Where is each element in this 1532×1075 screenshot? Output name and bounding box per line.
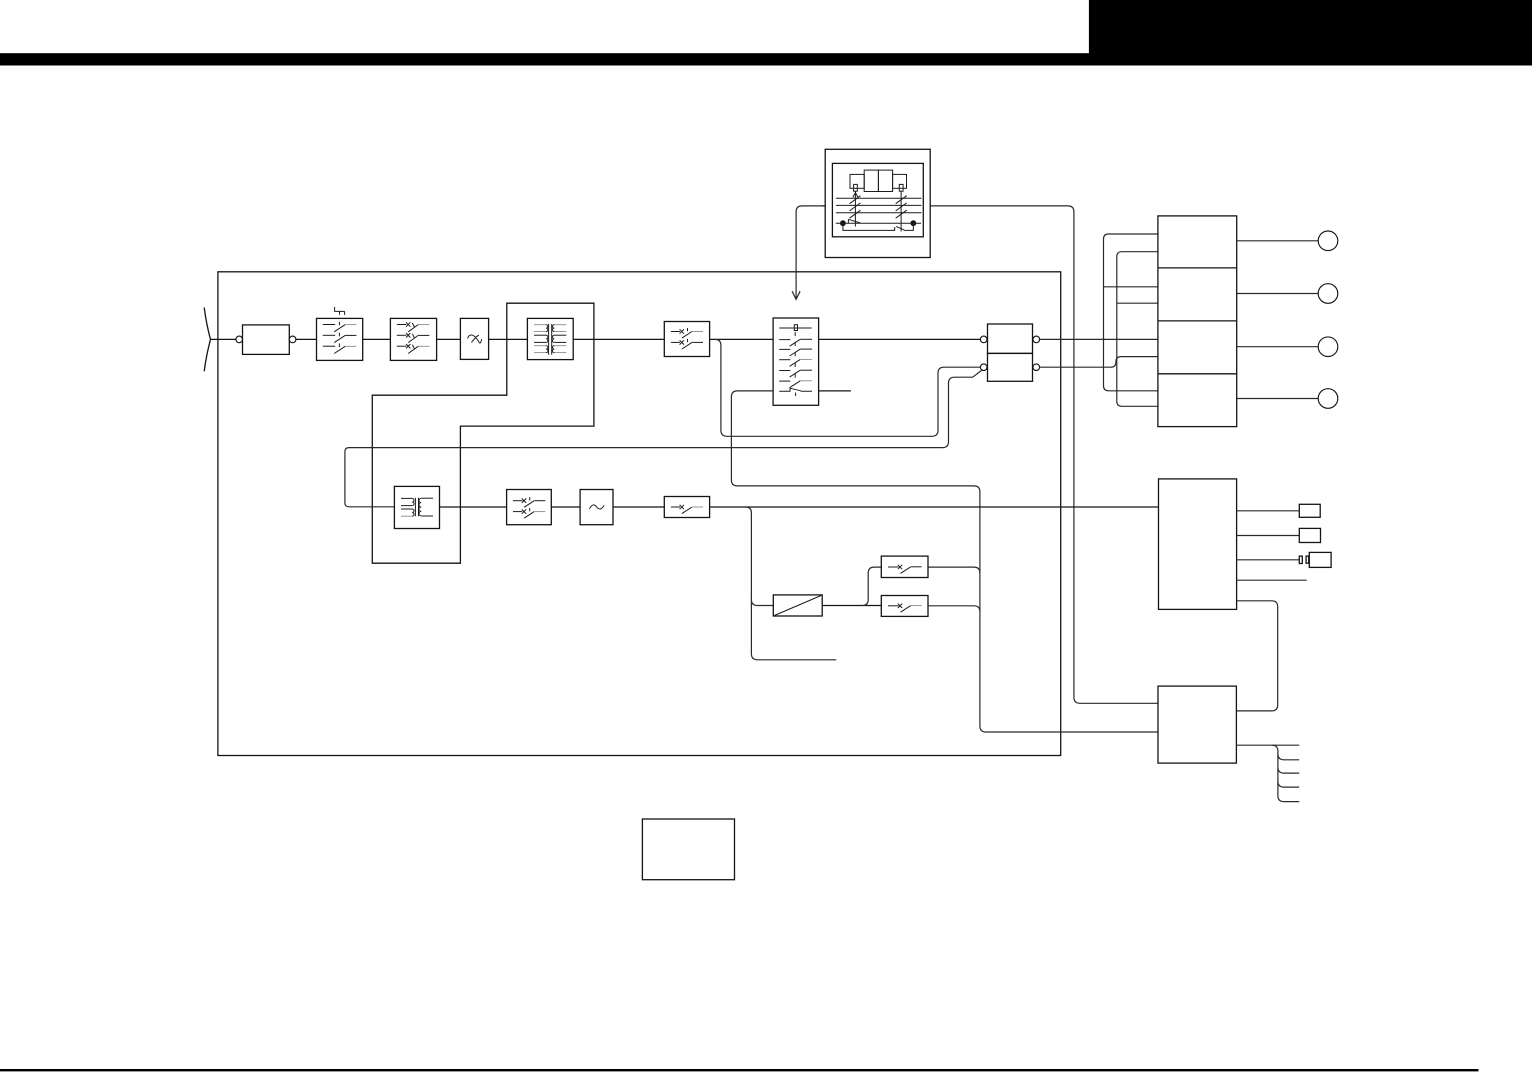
wire panel to coupler A xyxy=(819,338,981,340)
wire disconnect to stator panel xyxy=(710,338,774,340)
sine symbol xyxy=(590,505,605,509)
battery switch F4 xyxy=(881,556,928,577)
main transformer T1 xyxy=(527,318,573,359)
circuit breaker Q1 xyxy=(317,318,363,360)
controller output wire 4 xyxy=(1237,579,1307,581)
nacelle enclosure boundary xyxy=(218,272,1061,756)
converter diagonal xyxy=(774,596,821,616)
tap selector detail box outer xyxy=(825,149,930,257)
distribution feeder wire A xyxy=(1040,338,1158,340)
wire hub to generator xyxy=(211,338,237,340)
controller plug socket xyxy=(1306,556,1309,563)
auxiliary source G2 xyxy=(580,490,613,525)
controller output wire 2 xyxy=(1237,535,1300,537)
wire stub detail box left xyxy=(822,205,825,207)
feeder terminal 4 xyxy=(1318,389,1338,409)
tap selector detail box inner xyxy=(832,163,923,236)
wire F4 to controller bus xyxy=(928,567,980,573)
comms tap 2 xyxy=(1278,767,1299,773)
wind turbine rotor blades xyxy=(204,308,210,372)
distribution cabinet stack xyxy=(1158,216,1237,427)
soft starter U1 xyxy=(460,318,488,359)
comms output main xyxy=(1236,744,1299,746)
coupler terminal B right xyxy=(1033,364,1040,371)
wire panel bottom to controller bus xyxy=(731,391,1158,732)
feeder terminal 1 xyxy=(1318,231,1338,251)
battery switch F5 xyxy=(881,596,928,617)
legend box xyxy=(642,819,734,880)
coupler box B xyxy=(988,353,1033,381)
feeder terminal 3 xyxy=(1318,337,1338,357)
feeder output wire 1 xyxy=(1237,240,1319,242)
circuit breaker Q1 trip symbol xyxy=(335,307,345,315)
wire T2 to switch F2 xyxy=(440,506,507,508)
wire branch up to switch F4 xyxy=(862,567,881,605)
wire stub panel lower right xyxy=(819,390,851,392)
comms tap 1 xyxy=(1278,754,1299,760)
controller plug pin xyxy=(1299,556,1302,563)
controller connector 2 xyxy=(1299,528,1320,542)
auxiliary switch F3 xyxy=(664,497,709,518)
comms tap 3 xyxy=(1278,781,1299,787)
transformer cabinet outline xyxy=(372,303,594,563)
arrowhead xyxy=(792,291,800,299)
soft starter proportional symbol xyxy=(468,335,482,343)
wire F2 to aux generator xyxy=(551,506,580,508)
wire controller to comms box xyxy=(1236,601,1277,711)
coupler box A xyxy=(988,324,1033,353)
feeder output wire 4 xyxy=(1237,398,1319,400)
controller connector 3 xyxy=(1309,552,1331,567)
wire F3 to controller xyxy=(710,506,1159,508)
wire tap into converter xyxy=(751,600,773,606)
coupler terminal A left xyxy=(980,336,987,343)
wire converter to battery switches xyxy=(822,605,881,607)
wire breaker to fuse-switch xyxy=(363,338,391,340)
coupler terminal A right xyxy=(1033,336,1040,343)
disconnect switch Q2 xyxy=(664,322,709,357)
generator G1 terminal right xyxy=(289,336,296,343)
controller connector 1 xyxy=(1299,504,1320,517)
wire coupler B to auxiliary feeder xyxy=(345,370,982,506)
distribution feeder wire B with jog xyxy=(1040,357,1158,368)
auxiliary switch F2 xyxy=(507,490,552,525)
tap selector internals xyxy=(836,170,922,231)
wire transformer to disconnect switch xyxy=(573,338,664,340)
auxiliary transformer T2 xyxy=(394,486,439,528)
controller output wire 3 xyxy=(1237,559,1300,561)
fuse switch F1 xyxy=(390,318,436,360)
feeder output wire 2 xyxy=(1237,293,1319,295)
header black title block xyxy=(1089,0,1532,54)
wire generator to breaker xyxy=(296,338,317,340)
converter / charger xyxy=(773,595,822,616)
wire branch to converter xyxy=(745,507,836,660)
stator contactor panel S1 xyxy=(773,318,819,405)
controller cabinet xyxy=(1159,479,1237,610)
coupler terminal B left xyxy=(980,364,987,371)
wire soft starter to transformer xyxy=(489,338,528,340)
distribution bus A xyxy=(1104,234,1158,391)
controller output wire 1 xyxy=(1237,510,1300,512)
distribution bus B xyxy=(1117,252,1158,407)
comms fan-out bus xyxy=(1272,745,1299,801)
wire tap control with arrow into panel xyxy=(796,206,822,299)
feeder terminal 2 xyxy=(1318,284,1338,304)
footer rule xyxy=(0,1069,1479,1071)
header black rule bar xyxy=(0,53,1532,65)
wire fuse-switch to soft starter xyxy=(437,338,461,340)
feeder output wire 3 xyxy=(1237,346,1319,348)
wire bypass bus to coupler B xyxy=(715,339,981,436)
generator G1 xyxy=(243,325,290,355)
generator G1 terminal left xyxy=(236,336,243,343)
wire G2 to switch F3 xyxy=(613,506,664,508)
comms box xyxy=(1158,686,1236,763)
wire F5 to controller bus xyxy=(928,606,980,612)
